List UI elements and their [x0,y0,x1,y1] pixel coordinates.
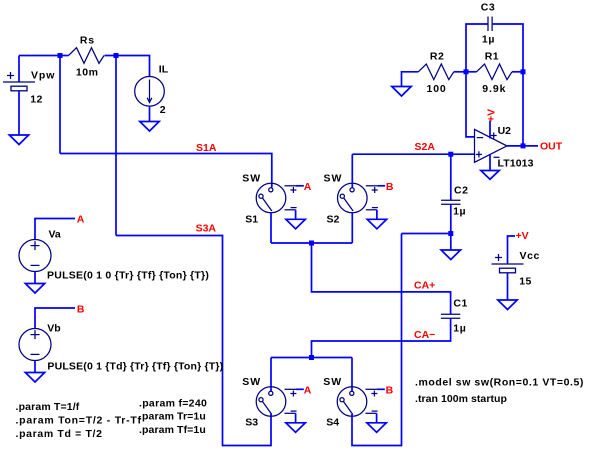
resistor R1 [477,64,513,80]
svg-text:.param Td = T/2: .param Td = T/2 [16,428,103,440]
wire CA+ from rail to C1 [312,243,451,314]
svg-text:.model sw sw(Ron=0.1 VT=0.5): .model sw sw(Ron=0.1 VT=0.5) [415,377,584,389]
wire S4 minus pin to ground [376,413,378,423]
svg-text:1µ: 1µ [453,206,466,218]
ground Vpw [9,135,28,145]
svg-text:PULSE(0 1 {Td} {Tr} {Tf} {Ton}: PULSE(0 1 {Td} {Tr} {Tf} {Ton} {T}) [47,360,223,372]
wire S2A from S2 to op-amp [352,153,474,155]
ground IL [140,122,159,132]
svg-text:C3: C3 [481,2,495,14]
svg-text:S1A: S1A [196,142,217,154]
wire ground net horizontal to C2 bottom [402,233,451,235]
wire op-amp output to OUT [507,145,538,147]
wire S1 bottom to rail [270,213,272,244]
ground op-amp [481,171,499,180]
wire Vpw top lead [18,56,20,83]
junction C2 bottom / ground net [448,231,453,236]
ground Vb [25,373,44,383]
wire S3 top lead [270,358,272,392]
svg-text:10m: 10m [76,67,99,79]
svg-text:SW: SW [242,376,261,388]
svg-text:C1: C1 [453,298,467,310]
voltage source Vcc (battery) [492,236,524,300]
svg-text:+V: +V [486,109,498,122]
switch S3 [256,387,296,417]
svg-text:B: B [386,385,394,397]
voltage source Vpw (battery) [3,56,35,136]
svg-text:S3A: S3A [196,223,217,235]
ground S2 [367,219,386,229]
junction R1 right / C3 / output [521,69,526,74]
svg-text:15: 15 [519,276,532,288]
wire Vpw top to node S1A junction [19,55,60,57]
wire rail S1/S2 bottoms [271,242,352,244]
ground R2 [392,87,411,97]
svg-text:A: A [77,214,85,226]
svg-text:CA−: CA− [414,329,435,341]
junction S2A / C2 top [448,152,453,157]
current source IL [135,77,165,122]
svg-text:PULSE(0 1 0 {Tr} {Tf} {Ton} {T: PULSE(0 1 0 {Tr} {Tf} {Ton} {T}) [47,269,209,281]
junction S3/S4 top rail [309,355,314,360]
svg-text:S2A: S2A [415,141,436,153]
switch S2 [338,183,378,213]
switch S4 [337,387,377,417]
wire S3 control to node A [296,388,304,390]
op-amp U2 [475,129,507,162]
wire S4 control to node B [377,388,385,390]
wire Va bottom lead [34,272,36,284]
wire C2 junction to ground [450,234,452,251]
wire C3 left loop [466,24,488,72]
svg-text:9.9k: 9.9k [482,83,506,95]
wire S3A horizontal and down to bottom rail [116,236,271,446]
ground S1 [286,219,305,229]
svg-text:.tran 100m startup: .tran 100m startup [415,393,507,405]
wire feedback R1 junction down to op-amp inverting input [466,72,475,137]
svg-text:+V: +V [516,230,529,242]
wire Va top to node A [35,219,75,240]
svg-text:.param Ton=T/2 - Tr-Tf: .param Ton=T/2 - Tr-Tf [16,415,142,427]
wire rail S3/S4 tops [271,357,352,359]
svg-text:S4: S4 [326,417,339,429]
svg-text:.param Tf=1u: .param Tf=1u [139,424,206,436]
wire S2 top to S2A [351,154,353,187]
ground S4 [367,423,386,433]
svg-text:C2: C2 [454,185,468,197]
wire Rs left lead [60,55,69,57]
ground C2 [441,250,460,260]
svg-text:Vb: Vb [47,323,60,335]
svg-text:SW: SW [323,376,342,388]
svg-text:12: 12 [30,94,43,106]
svg-text:.param f=240: .param f=240 [139,398,207,410]
wire vertical S3A down [115,56,117,236]
switch S1 [256,183,296,213]
svg-text:B: B [386,181,394,193]
voltage source Vb [19,308,75,373]
wire S2 minus pin to ground [376,210,378,220]
svg-text:S1: S1 [245,214,258,226]
junction output [521,143,526,148]
svg-text:LT1013: LT1013 [498,158,534,170]
junction rail CA+ [309,241,314,246]
capacitor C2 [441,200,460,204]
svg-text:.param T=1/f: .param T=1/f [16,401,80,413]
svg-text:1µ: 1µ [453,323,466,335]
resistor Rs [69,48,105,64]
wire Vb bottom lead [34,361,36,373]
wire S1A horizontal to S1 [60,154,272,188]
wire Vpw bottom lead [18,91,20,135]
svg-text:B: B [77,304,85,316]
junction S1A top [58,53,63,58]
capacitor C1 [441,314,460,318]
wire C2 top lead [450,154,452,200]
wire C2 bottom lead [450,204,452,233]
wire R1 left lead [466,71,477,73]
svg-text:Vcc: Vcc [520,250,540,262]
wire Vcc bottom lead [507,273,509,300]
svg-text:S2: S2 [327,214,340,226]
svg-text:R1: R1 [485,51,499,63]
svg-text:OUT: OUT [540,141,563,153]
voltage source Va [19,219,75,284]
ground Va [25,284,44,294]
wire IL bottom lead [149,106,151,121]
wire Vcc top lead [508,236,516,264]
wire R2 left lead to ground [402,72,419,87]
wire S2 control to node B [377,185,385,187]
wire S2 bottom to rail [351,213,353,244]
svg-text:1µ: 1µ [482,34,495,46]
wire Rs right lead to junction and to IL [105,56,150,77]
svg-text:Vpw: Vpw [31,70,55,82]
wire S4 top lead [351,358,353,392]
svg-text:.param Tr=1u: .param Tr=1u [139,411,206,423]
svg-text:CA+: CA+ [414,280,435,292]
svg-text:A: A [304,385,312,397]
wire S4 bottom to ground net [352,234,402,446]
svg-text:Va: Va [49,229,61,241]
wire R2 right lead [454,71,466,73]
svg-text:2: 2 [160,104,166,116]
svg-text:SW: SW [242,173,261,185]
resistor R2 [418,64,454,80]
capacitor C3 [488,17,492,32]
wire R1 right lead [512,71,523,73]
wire op-amp V- pin to ground [489,154,491,171]
svg-text:SW: SW [324,173,343,185]
svg-text:A: A [304,181,312,193]
svg-text:U2: U2 [498,125,512,137]
wire Vb top to node B [35,308,75,329]
wire CA- from C1 to S3/S4 rail [312,318,451,357]
wire S1 control to node A [296,185,304,187]
svg-text:R2: R2 [430,51,444,63]
junction Rs right / IL / S3A [114,53,119,58]
wire R1 right junction down to output [522,72,524,146]
junction R1/R2/C3/feedback [464,69,469,74]
wire op-amp V+ pin [489,121,491,139]
wire S3 minus pin to ground [295,413,297,423]
ground Vcc [498,300,517,310]
ground S3 [286,423,305,433]
wire C3 right loop [492,24,523,72]
wire S1 minus pin to ground [295,210,297,220]
svg-text:S3: S3 [245,417,258,429]
wire vertical S1A from junction down [59,56,61,154]
svg-text:Rs: Rs [80,35,95,47]
svg-text:IL: IL [159,64,169,76]
svg-text:100: 100 [427,83,447,95]
